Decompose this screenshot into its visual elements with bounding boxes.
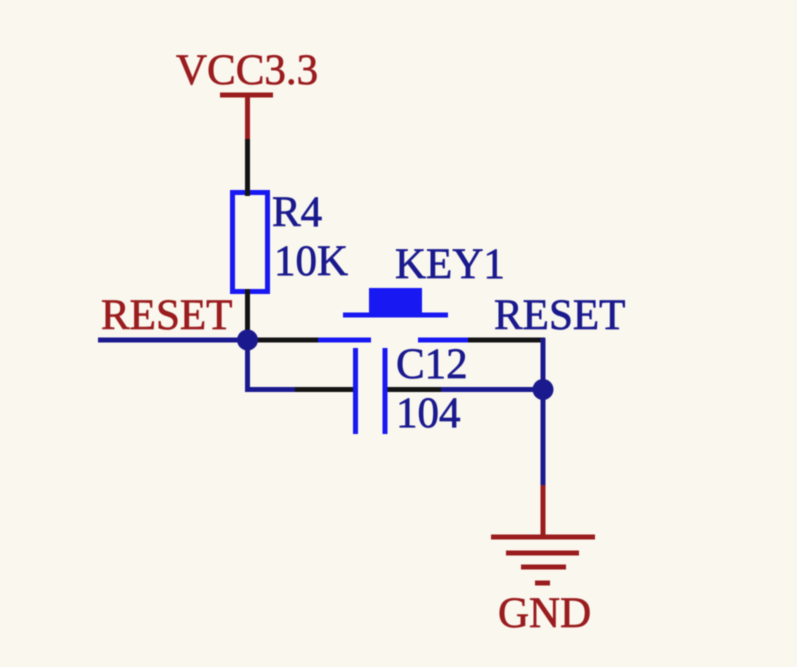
svg-text:VCC3.3: VCC3.3 [176,47,318,94]
svg-text:GND: GND [498,590,591,637]
svg-text:C12: C12 [396,341,468,388]
svg-text:KEY1: KEY1 [395,241,505,288]
svg-text:104: 104 [396,390,461,437]
svg-text:10K: 10K [274,238,348,285]
svg-text:RESET: RESET [494,292,625,339]
svg-text:R4: R4 [272,189,322,236]
svg-text:RESET: RESET [101,292,232,339]
